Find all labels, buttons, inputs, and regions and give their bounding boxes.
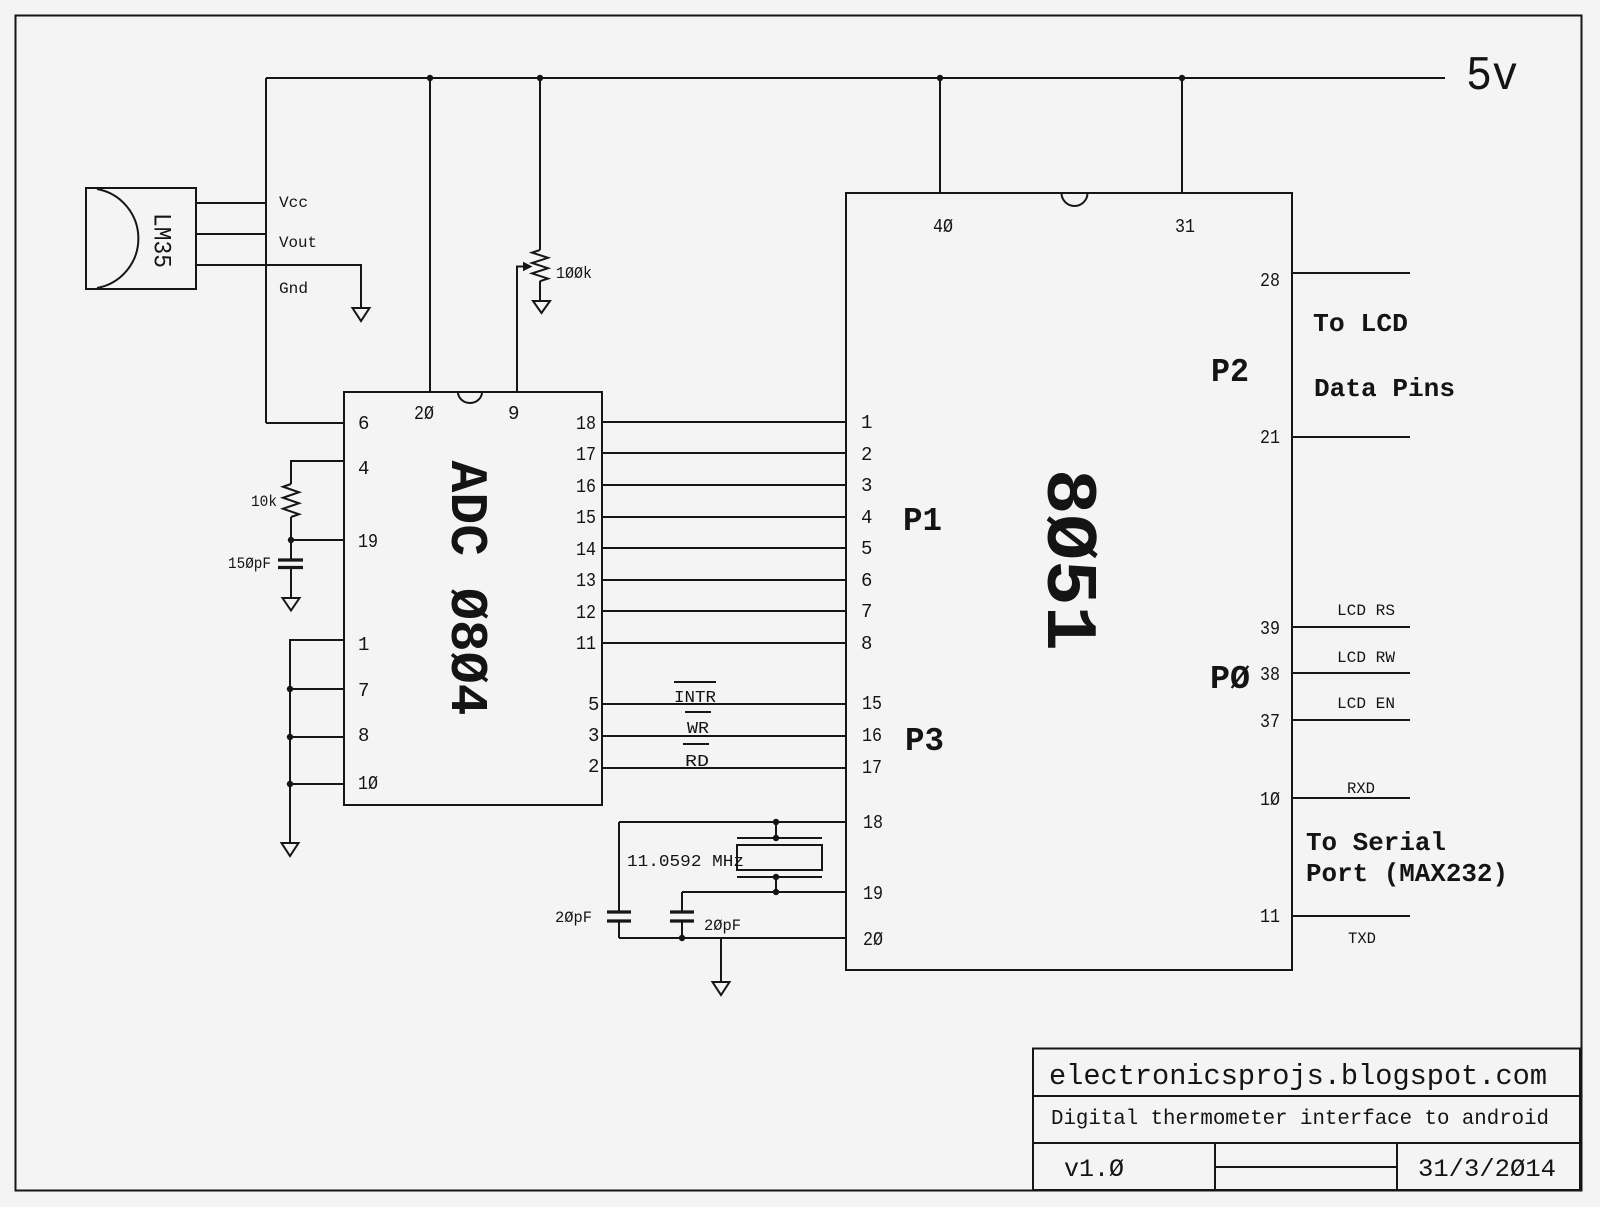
svg-text:8Ø51: 8Ø51: [1026, 469, 1108, 651]
junction at pin 10: [287, 781, 293, 787]
junction at pin 7: [287, 686, 293, 692]
junction at pin 8: [287, 734, 293, 740]
overline of INTR: [674, 681, 716, 683]
junction on 5v rail at ADC pin 20 riser: [427, 75, 433, 81]
svg-text:18: 18: [863, 812, 883, 834]
wire WR net: [602, 735, 846, 737]
svg-text:18: 18: [576, 413, 596, 435]
junction pin 18 wire / crystal: [773, 819, 779, 825]
wire LCD EN net: [1292, 719, 1410, 721]
svg-text:LCD EN: LCD EN: [1337, 695, 1395, 713]
svg-text:WR: WR: [687, 720, 709, 739]
ground symbol at ADC ground bus: [282, 843, 299, 856]
capacitor C2 20pF: [607, 822, 631, 938]
wire TXD net: [1292, 915, 1410, 917]
wire INTR net: [602, 703, 846, 705]
svg-text:To Serial: To Serial: [1306, 828, 1446, 858]
svg-text:3: 3: [861, 475, 872, 497]
ground symbol at 100k: [533, 301, 550, 313]
wire data bus bit D4: [602, 547, 846, 549]
wire 8051 pin 18: [619, 821, 846, 823]
svg-text:LM35: LM35: [147, 213, 176, 268]
svg-text:28: 28: [1260, 270, 1280, 292]
svg-text:8: 8: [358, 725, 369, 747]
svg-text:RD: RD: [685, 753, 709, 772]
wire RD net: [602, 767, 846, 769]
svg-text:5v: 5v: [1466, 50, 1518, 104]
svg-text:17: 17: [576, 444, 596, 466]
wire 8051 pin 28 to LCD: [1292, 272, 1410, 274]
svg-text:1Ø: 1Ø: [358, 773, 378, 795]
wire 8051 pin 21 to LCD: [1292, 436, 1410, 438]
title block: [1033, 1049, 1580, 1191]
svg-text:15: 15: [576, 507, 596, 529]
svg-text:2Ø: 2Ø: [863, 929, 883, 951]
svg-text:TXD: TXD: [1348, 930, 1376, 948]
svg-text:38: 38: [1260, 664, 1280, 686]
sensor U1 LM35: [86, 188, 196, 289]
svg-text:Data Pins: Data Pins: [1314, 374, 1455, 404]
wire ADC pin 7: [290, 688, 344, 690]
wire data bus bit D2: [602, 484, 846, 486]
svg-text:5: 5: [861, 538, 872, 560]
svg-text:6: 6: [358, 413, 369, 435]
svg-text:P1: P1: [903, 503, 942, 540]
svg-text:21: 21: [1260, 427, 1280, 449]
wire LM35 Gnd pin: [196, 265, 361, 308]
wire LCD RW net: [1292, 672, 1410, 674]
junction on 5v rail at 8051 pin 40 riser: [937, 75, 943, 81]
wire data bus bit D6: [602, 610, 846, 612]
svg-text:3: 3: [588, 725, 599, 747]
wire ADC pin 6 input: [266, 422, 344, 424]
svg-text:Gnd: Gnd: [279, 280, 308, 298]
wire 100k wiper to ADC pin 9: [517, 267, 524, 393]
svg-text:5: 5: [588, 694, 599, 716]
wire ADC pin 4 to 10k: [291, 461, 344, 484]
IC U3 8051: [846, 193, 1292, 970]
svg-text:PØ: PØ: [1210, 661, 1250, 698]
svg-text:31: 31: [1175, 216, 1195, 238]
svg-text:P3: P3: [905, 723, 944, 760]
svg-text:11.0592 MHz: 11.0592 MHz: [627, 853, 744, 872]
svg-text:19: 19: [863, 883, 883, 905]
wire data bus bit D7: [602, 642, 846, 644]
svg-text:4: 4: [358, 458, 369, 480]
junction C3 / pin 20 bus: [679, 935, 685, 941]
svg-text:15ØpF: 15ØpF: [228, 555, 271, 573]
wire ADC pin 10: [290, 783, 344, 785]
crystal X1 11.0592 MHz: [737, 822, 822, 892]
svg-text:P2: P2: [1211, 354, 1249, 391]
overline of WR: [685, 711, 711, 713]
svg-text:6: 6: [861, 570, 872, 592]
svg-text:ADC Ø8Ø4: ADC Ø8Ø4: [436, 461, 496, 716]
wire 8051 pin 19: [682, 891, 846, 893]
svg-text:1ØØk: 1ØØk: [556, 265, 592, 284]
junction pin 19 wire / crystal: [773, 889, 779, 895]
svg-text:15: 15: [862, 693, 882, 715]
wire ADC pin 1 / ground bus: [290, 640, 344, 843]
svg-text:To LCD: To LCD: [1313, 309, 1408, 339]
svg-text:1: 1: [358, 634, 369, 656]
svg-text:7: 7: [358, 680, 369, 702]
potentiometer R2 100k: [532, 250, 548, 281]
wire ground stub of pin 20 bus: [720, 938, 722, 982]
wire LCD RS net: [1292, 626, 1410, 628]
wire 100k to 5v rail: [539, 78, 541, 250]
svg-text:11: 11: [576, 633, 596, 655]
IC U2 ADC 0804: [344, 392, 602, 805]
svg-text:16: 16: [862, 725, 882, 747]
svg-text:14: 14: [576, 539, 596, 561]
svg-text:12: 12: [576, 602, 596, 624]
capacitor C3 20pF: [670, 892, 694, 938]
wire 8051 pin 20 ground bus: [619, 937, 846, 939]
ground symbol at LM35: [353, 308, 370, 321]
svg-text:Vcc: Vcc: [279, 194, 308, 212]
wire data bus bit D0 (ADC 18 to 8051 1): [602, 421, 846, 423]
svg-text:10k: 10k: [251, 493, 277, 511]
wire 5v riser down to ADC pin 6: [265, 78, 267, 423]
junction on 5v rail at 8051 pin 31 riser: [1179, 75, 1185, 81]
wire ADC pin 20 to 5v rail: [429, 78, 431, 392]
wire 10k to node: [290, 517, 292, 540]
wire RXD net: [1292, 797, 1410, 799]
svg-text:Digital thermometer interface: Digital thermometer interface to android: [1051, 1108, 1549, 1131]
svg-text:39: 39: [1260, 618, 1280, 640]
svg-text:4Ø: 4Ø: [933, 216, 953, 238]
svg-text:Port (MAX232): Port (MAX232): [1306, 859, 1508, 889]
overline of RD: [683, 743, 709, 745]
svg-text:19: 19: [358, 531, 378, 553]
svg-text:13: 13: [576, 570, 596, 592]
wire data bus bit D5: [602, 579, 846, 581]
svg-text:2: 2: [588, 756, 599, 778]
wire LM35 Vcc pin to 5v riser: [196, 202, 266, 204]
svg-text:2ØpF: 2ØpF: [704, 917, 741, 935]
wire 5v supply rail: [266, 77, 1445, 79]
svg-text:37: 37: [1260, 711, 1280, 733]
svg-text:16: 16: [576, 476, 596, 498]
wire 8051 pin 31 to 5v rail: [1181, 78, 1183, 193]
svg-text:v1.Ø: v1.Ø: [1064, 1155, 1124, 1184]
svg-text:9: 9: [508, 403, 519, 425]
svg-text:RXD: RXD: [1347, 780, 1375, 798]
wire data bus bit D1: [602, 452, 846, 454]
wire ADC pin 8: [290, 736, 344, 738]
svg-text:11: 11: [1260, 906, 1280, 928]
svg-text:7: 7: [861, 601, 872, 623]
ground symbol at 150pF: [283, 598, 300, 611]
svg-text:2ØpF: 2ØpF: [555, 909, 592, 927]
wire LM35 Vout pin: [196, 233, 266, 235]
svg-text:LCD RW: LCD RW: [1337, 649, 1395, 667]
junction on 5v rail at 100k riser: [537, 75, 543, 81]
svg-text:Vout: Vout: [279, 234, 317, 252]
svg-text:1Ø: 1Ø: [1260, 789, 1280, 811]
wire 8051 pin 40 to 5v rail: [939, 78, 941, 193]
wire data bus bit D3: [602, 516, 846, 518]
svg-text:electronicsprojs.blogspot.com: electronicsprojs.blogspot.com: [1049, 1060, 1547, 1093]
svg-text:2Ø: 2Ø: [414, 403, 434, 425]
svg-text:1: 1: [861, 412, 872, 434]
svg-text:4: 4: [861, 507, 872, 529]
ground symbol at crystal: [713, 982, 730, 995]
junction at pin 19 / 150pF: [288, 537, 294, 543]
svg-text:INTR: INTR: [674, 689, 716, 708]
wire ADC pin 19: [291, 539, 344, 541]
svg-text:17: 17: [862, 757, 882, 779]
svg-text:31/3/2Ø14: 31/3/2Ø14: [1418, 1155, 1556, 1184]
svg-text:8: 8: [861, 633, 872, 655]
wiper arrowhead: [523, 262, 533, 272]
svg-text:2: 2: [861, 444, 872, 466]
svg-text:LCD RS: LCD RS: [1337, 602, 1395, 620]
wire 100k bottom to ground: [539, 281, 541, 301]
resistor R1 10k: [283, 484, 299, 517]
capacitor C1 150pF: [278, 540, 303, 598]
